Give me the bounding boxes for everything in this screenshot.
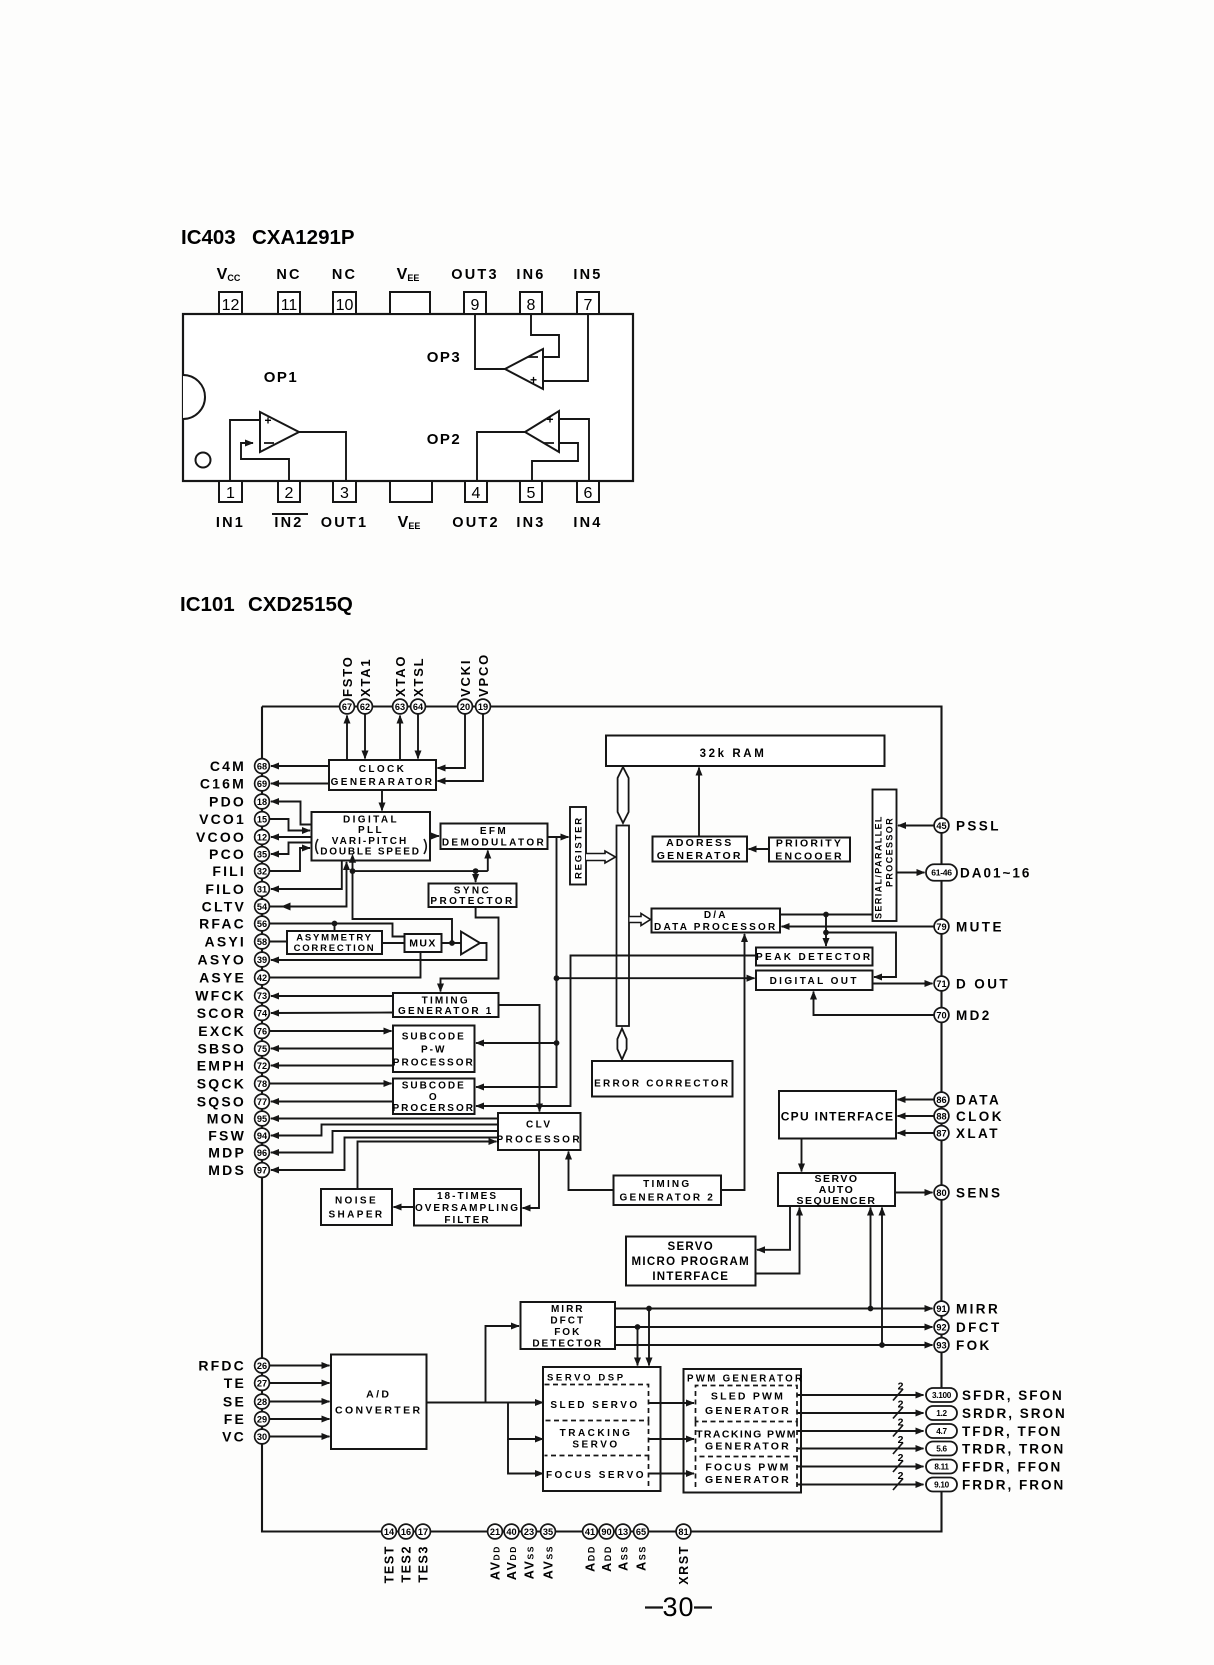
- svg-text:VARI-PITCH: VARI-PITCH: [332, 836, 408, 847]
- svg-text:2: 2: [898, 1470, 904, 1482]
- svg-text:DIGITAL OUT: DIGITAL OUT: [770, 976, 859, 987]
- svg-text:A/D: A/D: [366, 1388, 391, 1400]
- svg-text:78: 78: [257, 1079, 267, 1089]
- svg-text:CORRECTION: CORRECTION: [294, 943, 376, 954]
- pin 71 (D OUT): [934, 976, 949, 991]
- svg-text:OVERSAMPLING: OVERSAMPLING: [415, 1203, 520, 1214]
- wire PWM output to pins 9.10: [798, 1484, 924, 1486]
- sub-block TRACKING SERVO (dashed): [545, 1421, 649, 1456]
- wire A/D branch to MIRR detector: [486, 1326, 520, 1403]
- wire MDS pin97 from CLV processor: [271, 1138, 498, 1171]
- svg-text:39: 39: [257, 955, 267, 965]
- wire PSSL pin45 to serial/parallel processor: [898, 825, 934, 827]
- wire buffer amp to ASYO pin39: [271, 943, 487, 960]
- svg-text:6: 6: [584, 485, 593, 502]
- wire CLV processor to oversampling filter: [523, 1150, 540, 1208]
- svg-text:VCKI: VCKI: [458, 659, 473, 697]
- pin 3.100: [926, 1388, 957, 1402]
- svg-text:87: 87: [936, 1128, 946, 1138]
- wire SQCK pin78 to subcode O procersor: [269, 1083, 392, 1085]
- svg-text:GENERATOR 2: GENERATOR 2: [619, 1192, 715, 1203]
- wire WFCK pin73 from timing generator 1: [271, 995, 393, 997]
- svg-text:TIMING: TIMING: [643, 1179, 691, 1190]
- pin box 7 (IN5) top: [573, 267, 602, 314]
- svg-text:68: 68: [257, 761, 267, 771]
- wire sled servo to sled PWM generator: [649, 1402, 695, 1404]
- svg-text:TE: TE: [224, 1375, 246, 1391]
- svg-text:35: 35: [543, 1527, 553, 1537]
- wire FE pin29 to A/D converter: [269, 1418, 330, 1420]
- pin 42 (ASYE): [255, 970, 270, 985]
- bus width slash /2 on 4.7 line: [893, 1417, 904, 1437]
- svg-text:PROCESSOR: PROCESSOR: [885, 817, 895, 887]
- pin 21 (AVdd) bottom: [488, 1524, 503, 1539]
- wire VC pin30 to A/D converter: [269, 1436, 330, 1438]
- op-amp OP2: [525, 411, 559, 452]
- svg-text:ASYMMETRY: ASYMMETRY: [296, 932, 373, 943]
- svg-text:GENERATOR 1: GENERATOR 1: [398, 1006, 494, 1017]
- block TIMING GENERATOR 2: [614, 1176, 722, 1206]
- svg-text:ASYE: ASYE: [199, 969, 246, 985]
- svg-text:23: 23: [524, 1527, 534, 1537]
- svg-text:XTA1: XTA1: [358, 658, 373, 697]
- pin 58 (ASYI): [255, 934, 270, 949]
- wire pin9 to OP3 output: [475, 313, 505, 369]
- svg-text:O: O: [429, 1092, 439, 1103]
- svg-text:TRDR, TRON: TRDR, TRON: [962, 1442, 1065, 1457]
- svg-text:2: 2: [898, 1417, 904, 1429]
- svg-text:54: 54: [257, 902, 268, 912]
- junction dot RFAC to asymmetry correction: [332, 921, 338, 927]
- wire OP1 output to pin3: [299, 432, 346, 481]
- svg-text:91: 91: [936, 1304, 946, 1314]
- pin 19 (VPCO): [476, 699, 491, 714]
- pin 14 (TEST) bottom: [382, 1524, 397, 1539]
- block 18-TIMES OVERSAMPLING FILTER: [414, 1189, 521, 1226]
- wire A/D branch to focus servo: [508, 1439, 543, 1474]
- svg-text:8.11: 8.11: [934, 1462, 949, 1471]
- junction dot MIRR to servo dsp: [646, 1306, 652, 1312]
- svg-text:ASYI: ASYI: [205, 933, 246, 949]
- wire DFCT detector to DFCT pin92: [615, 1326, 933, 1328]
- svg-text:5: 5: [527, 485, 536, 502]
- svg-text:CPU INTERFACE: CPU INTERFACE: [781, 1109, 895, 1123]
- svg-text:DEMODULATOR: DEMODULATOR: [442, 838, 546, 849]
- block DIGITAL PLL VARI-PITCH DOUBLE SPEED: [312, 812, 431, 861]
- svg-text:CXD2515Q: CXD2515Q: [248, 593, 353, 616]
- svg-text:DETECTOR: DETECTOR: [532, 1338, 603, 1349]
- svg-text:80: 80: [936, 1188, 946, 1198]
- pin 93 (FOK): [934, 1338, 949, 1353]
- wire down into sync protector: [475, 871, 477, 882]
- pin box 11 (NC) top: [276, 267, 301, 314]
- wire pin8 to OP3 - input: [531, 313, 559, 357]
- svg-text:REGISTER: REGISTER: [574, 816, 585, 879]
- svg-text:97: 97: [257, 1165, 267, 1175]
- svg-text:XTSL: XTSL: [411, 657, 426, 697]
- pin 91 (MIRR): [934, 1301, 949, 1316]
- svg-text:D OUT: D OUT: [956, 976, 1010, 991]
- wire up into EFM demodulator bottom: [487, 851, 489, 872]
- svg-text:15: 15: [257, 814, 267, 824]
- svg-text:SRDR, SRON: SRDR, SRON: [962, 1406, 1067, 1421]
- pin 35 (AVss) bottom: [541, 1524, 556, 1539]
- wire EXCK pin76 to subcode P-W processor: [269, 1030, 392, 1032]
- pin box 5 (IN3) bottom: [516, 481, 545, 531]
- bus arrow to error corrector (hexagonal): [617, 1029, 626, 1060]
- pin box 3 (OUT1) bottom: [321, 481, 368, 531]
- svg-text:12: 12: [222, 297, 240, 314]
- svg-text:28: 28: [257, 1397, 267, 1407]
- page number -30-: [645, 1592, 712, 1622]
- wire SQSO pin77 from subcode O procersor: [271, 1101, 393, 1103]
- pin 28 (SE): [255, 1394, 270, 1409]
- block ASYMMETRY CORRECTION: [287, 931, 382, 954]
- svg-text:SQSO: SQSO: [197, 1093, 246, 1109]
- svg-text:IN3: IN3: [516, 515, 545, 531]
- wire MUX to buffer amp: [442, 942, 462, 944]
- svg-text:35: 35: [257, 849, 267, 859]
- svg-text:GENERATOR: GENERATOR: [657, 850, 743, 862]
- svg-text:96: 96: [257, 1148, 267, 1158]
- wire VCO1 pin15 to PLL: [269, 819, 310, 831]
- svg-text:75: 75: [257, 1044, 267, 1054]
- svg-text:FE: FE: [224, 1411, 246, 1427]
- wire peak detector line to subcode O lower: [476, 956, 756, 1107]
- svg-text:PCO: PCO: [209, 846, 246, 862]
- block CLV PROCESSOR: [496, 1113, 582, 1150]
- block ERROR CORRECTOR: [592, 1061, 733, 1097]
- pin 61-46 (DA01~16): [926, 864, 957, 881]
- svg-text:DOUBLE SPEED: DOUBLE SPEED: [320, 846, 421, 857]
- svg-text:FOCUS PWM: FOCUS PWM: [705, 1462, 790, 1474]
- svg-text:73: 73: [257, 991, 267, 1001]
- svg-text:IN1: IN1: [216, 515, 245, 531]
- sub-block TRACKING PWM GENERATOR (dashed): [696, 1422, 798, 1457]
- wire FILI pin32 to PLL: [269, 848, 310, 871]
- wire servo auto sequencer to SENS pin80: [895, 1192, 933, 1194]
- svg-text:61-46: 61-46: [931, 868, 952, 878]
- block REGISTER (vertical): [570, 807, 586, 885]
- block MIRR DFCT FOK DETECTOR: [521, 1302, 616, 1349]
- svg-text:14: 14: [384, 1527, 395, 1537]
- svg-text:VCO1: VCO1: [199, 811, 246, 827]
- wire clock generator to digital PLL: [381, 790, 383, 811]
- svg-text:29: 29: [257, 1414, 267, 1424]
- wire EFM demodulator to register: [548, 836, 569, 838]
- svg-text:ASS: ASS: [617, 1545, 631, 1571]
- wire loop to digital out right side: [826, 933, 896, 978]
- svg-text:30: 30: [662, 1592, 694, 1622]
- wire PDO pin18 from PLL: [271, 802, 312, 825]
- svg-text:18: 18: [257, 797, 267, 807]
- svg-text:PROCESSOR: PROCESSOR: [496, 1134, 582, 1145]
- block CLOCK GENERARATOR: [329, 760, 436, 790]
- junction dot D/A output: [823, 912, 829, 918]
- svg-text:AVSS: AVSS: [523, 1545, 537, 1579]
- svg-text:SEQUENCER: SEQUENCER: [796, 1195, 876, 1207]
- svg-text:FILTER: FILTER: [444, 1215, 490, 1226]
- IC403 package body: [183, 314, 633, 481]
- wire PLL to EFM demodulator: [430, 835, 439, 837]
- svg-text:65: 65: [636, 1527, 646, 1537]
- wire VPCO pin19 to clock generator: [438, 714, 484, 781]
- block SUBCODE Q PROCERSOR: [393, 1079, 475, 1115]
- svg-text:41: 41: [585, 1527, 595, 1537]
- svg-text:10: 10: [336, 297, 354, 314]
- svg-text:76: 76: [257, 1026, 267, 1036]
- svg-text:17: 17: [418, 1527, 428, 1537]
- svg-text:+: +: [264, 414, 271, 428]
- svg-text:EFM: EFM: [480, 826, 508, 837]
- svg-text:12: 12: [257, 832, 267, 842]
- wire VCKI pin20 to clock generator: [438, 714, 466, 768]
- svg-text:ADORESS: ADORESS: [666, 837, 733, 849]
- svg-text:RFAC: RFAC: [199, 915, 246, 931]
- op-amp OP1: [260, 412, 299, 452]
- pin 17 (TES3) bottom: [416, 1524, 431, 1539]
- svg-text:MON: MON: [207, 1110, 246, 1126]
- pin 97 (MDS): [255, 1163, 270, 1178]
- svg-text:26: 26: [257, 1361, 267, 1371]
- svg-text:71: 71: [936, 979, 946, 989]
- svg-text:62: 62: [360, 702, 370, 712]
- wire RFAC pin56 to MUX: [269, 924, 405, 937]
- junction dot sync branch: [473, 868, 479, 874]
- wire MD2 pin70 to digital out: [814, 992, 935, 1016]
- svg-text:ASYO: ASYO: [198, 951, 246, 967]
- svg-text:ASS: ASS: [635, 1545, 649, 1571]
- wire EMPH pin72 from subcode P-W processor: [271, 1065, 393, 1067]
- bus arrow register to data bus: [586, 851, 616, 863]
- pin 68 (C4M): [255, 759, 270, 774]
- block SERVO AUTO SEQUENCER: [778, 1173, 895, 1207]
- svg-text:CLOCK: CLOCK: [359, 764, 407, 775]
- wire pin1 to OP1 + input: [230, 420, 260, 481]
- wire adoress generator to 32k RAM: [698, 768, 700, 837]
- svg-text:SENS: SENS: [956, 1185, 1002, 1200]
- svg-text:PDO: PDO: [209, 793, 246, 809]
- svg-text:77: 77: [257, 1097, 267, 1107]
- svg-text:VC: VC: [222, 1428, 246, 1444]
- block TIMING GENERATOR 1: [393, 993, 499, 1017]
- wire ASYE pin42 to MUX bottom: [269, 952, 421, 978]
- svg-text:69: 69: [257, 779, 267, 789]
- pin box 4 (OUT2) bottom: [452, 481, 499, 531]
- wire XTA1 pin62 to clock generator: [364, 714, 366, 759]
- svg-text:INTERFACE: INTERFACE: [652, 1271, 729, 1283]
- sub-block FOCUS PWM GENERATOR (dashed): [696, 1457, 798, 1491]
- svg-text:5.6: 5.6: [936, 1444, 947, 1453]
- svg-text:93: 93: [936, 1340, 946, 1350]
- svg-text:AVSS: AVSS: [542, 1545, 556, 1579]
- pin 92 (DFCT): [934, 1320, 949, 1335]
- svg-text:95: 95: [257, 1114, 267, 1124]
- svg-text:ERROR CORRECTOR: ERROR CORRECTOR: [594, 1078, 730, 1089]
- wire RFDC pin26 to A/D converter: [269, 1365, 330, 1367]
- block SERVO MICRO PROGRAM INTERFACE: [626, 1237, 756, 1286]
- svg-text:RFDC: RFDC: [198, 1357, 246, 1373]
- pin 45 (PSSL): [934, 818, 949, 833]
- pin 95 (MON): [255, 1111, 270, 1126]
- svg-text:88: 88: [936, 1111, 946, 1121]
- data bus (vertical): [617, 826, 630, 1027]
- svg-text:PWM GENERATOR: PWM GENERATOR: [687, 1373, 804, 1384]
- wire PWM output to pins 1.2: [798, 1412, 924, 1414]
- title IC101 CXD2515Q: [180, 593, 353, 616]
- junction dot MUX output: [449, 940, 455, 946]
- svg-text:4: 4: [472, 485, 481, 502]
- pin 41 (ADD) bottom: [583, 1524, 598, 1539]
- svg-text:7: 7: [584, 297, 593, 314]
- svg-text:40: 40: [506, 1527, 516, 1537]
- wire DATA pin86 to CPU interface: [898, 1099, 935, 1101]
- block SYNC PROTECTOR: [429, 884, 517, 908]
- pin 29 (FE): [255, 1412, 270, 1427]
- pin 96 (MDP): [255, 1145, 270, 1160]
- wire PWM output to pins 3.100: [798, 1394, 924, 1396]
- svg-text:IN2: IN2: [274, 515, 303, 531]
- svg-text:TES2: TES2: [400, 1545, 414, 1583]
- wire FSW pin94 from CLV processor: [271, 1125, 498, 1136]
- svg-text:SUBCODE: SUBCODE: [402, 1080, 466, 1091]
- sub-block FOCUS SERVO (dashed): [546, 1456, 649, 1490]
- svg-text:TEST: TEST: [383, 1545, 397, 1583]
- pin 20 (VCKI): [458, 699, 473, 714]
- svg-text:13: 13: [618, 1527, 628, 1537]
- svg-text:30: 30: [257, 1432, 267, 1442]
- svg-text:GENERARATOR: GENERARATOR: [331, 777, 435, 788]
- wire CLTV pin54 to PLL: [269, 862, 347, 907]
- svg-text:18-TIMES: 18-TIMES: [437, 1191, 498, 1202]
- pin 70 (MD2): [934, 1008, 949, 1023]
- bus width slash /2 on 1.2 line: [893, 1399, 904, 1419]
- svg-text:86: 86: [936, 1095, 946, 1105]
- svg-text:MIRR: MIRR: [956, 1301, 1000, 1316]
- junction dot FOK to sequencer: [879, 1342, 885, 1348]
- wire register bus to subcode P-W: [476, 978, 557, 1043]
- svg-text:27: 27: [257, 1378, 267, 1388]
- wire TE pin27 to A/D converter: [269, 1382, 330, 1384]
- block D/A DATA PROCESSOR: [652, 909, 781, 933]
- svg-text:DIGITAL: DIGITAL: [343, 815, 399, 826]
- svg-text:VCOO: VCOO: [196, 829, 246, 845]
- svg-text:SLED PWM: SLED PWM: [711, 1391, 785, 1403]
- svg-text:+: +: [546, 413, 553, 427]
- svg-text:FSTO: FSTO: [340, 655, 355, 697]
- svg-text:SERVO DSP: SERVO DSP: [547, 1373, 626, 1384]
- pin 16 (TES2) bottom: [399, 1524, 414, 1539]
- wire A/D branch to tracking servo: [508, 1403, 543, 1440]
- pin 27 (TE): [255, 1376, 270, 1391]
- svg-text:SQCK: SQCK: [197, 1075, 246, 1091]
- svg-text:PLL: PLL: [358, 825, 384, 836]
- svg-text:CLOK: CLOK: [956, 1109, 1004, 1124]
- svg-text:SLED SERVO: SLED SERVO: [550, 1400, 639, 1411]
- block 32k RAM: [606, 736, 885, 767]
- wire C4M pin68 from clock generator: [271, 765, 329, 767]
- wire pin5 to OP2 - input: [532, 443, 578, 481]
- pin 76 (EXCK): [255, 1024, 270, 1039]
- wire FOK branch to servo auto sequencer: [881, 1208, 883, 1346]
- svg-text:MIRR: MIRR: [551, 1304, 585, 1315]
- svg-text:63: 63: [395, 702, 405, 712]
- svg-text:IN6: IN6: [516, 267, 545, 283]
- svg-text:9.10: 9.10: [934, 1480, 949, 1489]
- pin 12 (VCOO): [255, 830, 270, 845]
- pin 30 (VC): [255, 1429, 270, 1444]
- svg-text:GENERATOR: GENERATOR: [705, 1405, 791, 1417]
- pin 26 (RFDC): [255, 1358, 270, 1373]
- pin 74 (SCOR): [255, 1006, 270, 1021]
- svg-text:42: 42: [257, 973, 267, 983]
- svg-text:SBSO: SBSO: [198, 1040, 246, 1056]
- svg-text:PROTECTOR: PROTECTOR: [430, 896, 514, 907]
- svg-text:MUX: MUX: [409, 938, 437, 950]
- svg-text:EMPH: EMPH: [197, 1057, 246, 1073]
- svg-text:FILI: FILI: [212, 863, 246, 879]
- svg-text:64: 64: [413, 702, 424, 712]
- svg-text:MD2: MD2: [956, 1008, 992, 1023]
- pin 39 (ASYO): [255, 952, 270, 967]
- pin 67 (FSTO): [340, 699, 355, 714]
- pin 56 (RFAC): [255, 916, 270, 931]
- block PEAK DETECTOR: [756, 948, 873, 966]
- wire SE pin28 to A/D converter: [269, 1401, 330, 1403]
- wire junction to buffer input: [353, 871, 453, 943]
- svg-text:MICRO PROGRAM: MICRO PROGRAM: [632, 1256, 750, 1268]
- block EFM DEMODULATOR: [441, 824, 548, 850]
- svg-text:MUTE: MUTE: [956, 919, 1004, 934]
- wire PWM output to pins 5.6: [798, 1448, 924, 1450]
- svg-text:C4M: C4M: [210, 758, 246, 774]
- svg-text:90: 90: [601, 1527, 611, 1537]
- svg-text:19: 19: [478, 702, 488, 712]
- wire PWM output to pins 8.11: [798, 1466, 924, 1468]
- svg-text:FILO: FILO: [205, 881, 246, 897]
- svg-text:IN5: IN5: [573, 267, 602, 283]
- title IC403 CXA1291P: [181, 226, 355, 249]
- svg-text:74: 74: [257, 1008, 268, 1018]
- pin box 12 (Vcc) top: [217, 266, 242, 314]
- wire SCOR pin74 from timing generator 1: [271, 1012, 393, 1015]
- wire register bus down to digital out: [557, 837, 755, 978]
- svg-text:FRDR, FRON: FRDR, FRON: [962, 1478, 1065, 1493]
- pin 88 (CLOK): [934, 1109, 949, 1124]
- svg-text:92: 92: [936, 1322, 946, 1332]
- svg-text:TRACKING PWM: TRACKING PWM: [696, 1428, 797, 1440]
- bus width slash /2 on 9.10 line: [893, 1470, 904, 1490]
- wire ASYI pin58 to asymmetry correction: [269, 941, 287, 943]
- wire EFM feedback junction under PLL: [352, 862, 354, 871]
- svg-text:TRACKING: TRACKING: [560, 1428, 633, 1439]
- svg-text:FOCUS SERVO: FOCUS SERVO: [546, 1470, 646, 1481]
- svg-text:CLTV: CLTV: [202, 898, 246, 914]
- junction dot register bus / digital out: [554, 975, 560, 981]
- pin 79 (MUTE): [934, 919, 949, 934]
- svg-text:DATA PROCESSOR: DATA PROCESSOR: [654, 922, 777, 933]
- wire A/D converter to sled servo: [427, 1402, 544, 1404]
- svg-text:NOISE: NOISE: [335, 1195, 378, 1206]
- svg-text:16: 16: [401, 1527, 411, 1537]
- svg-text:CXA1291P: CXA1291P: [252, 226, 355, 249]
- svg-text:IN4: IN4: [573, 515, 602, 531]
- svg-text:ADD: ADD: [600, 1545, 614, 1572]
- svg-text:C16M: C16M: [200, 775, 246, 791]
- svg-text:PSSL: PSSL: [956, 818, 1001, 833]
- svg-text:DATA: DATA: [956, 1092, 1001, 1107]
- wire PCO pin35 from PLL: [271, 843, 312, 855]
